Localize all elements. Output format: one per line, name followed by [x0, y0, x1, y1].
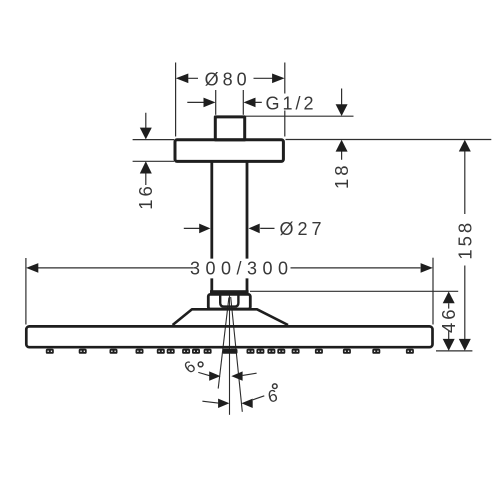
- nozzle highlight dots: [48, 351, 413, 352]
- arrow 46 down: [443, 339, 455, 351]
- arrow 6deg lower-left: [218, 399, 229, 408]
- arrow 16 down: [140, 128, 152, 140]
- arrow 46 up: [443, 292, 455, 304]
- nozzle 3: [110, 349, 118, 354]
- leader upper right tail: [243, 373, 257, 375]
- spray nozzles row: [46, 349, 414, 354]
- dimension 46 extension bottom: [436, 350, 472, 352]
- arrow G1/2 left: [204, 98, 216, 108]
- arrow Ø80 left: [176, 74, 189, 84]
- svg-text:G1/2: G1/2: [266, 93, 317, 113]
- pipe right edge (gap at 300/300 text): [246, 161, 249, 290]
- nozzle 5: [157, 349, 165, 354]
- arrow Ø27 left: [199, 224, 210, 234]
- svg-text:Ø80: Ø80: [205, 69, 251, 89]
- pipe left edge (gap at 300/300 text): [210, 161, 213, 290]
- nozzle 13: [256, 349, 264, 354]
- arrow 158 down: [459, 339, 471, 351]
- nozzle 2: [79, 349, 87, 354]
- svg-text:300/300: 300/300: [190, 259, 294, 279]
- nozzle 19: [372, 349, 380, 354]
- nozzle 11: [230, 349, 238, 354]
- nozzle 15: [277, 349, 285, 354]
- degree symbol lower: [273, 384, 278, 389]
- dimension 16 extension bottom: [133, 160, 174, 162]
- arrow 6deg lower-right: [241, 399, 252, 408]
- nozzle 7: [182, 349, 190, 354]
- spray angle line left 6deg: [218, 298, 229, 389]
- dimension G1/2 line tails: [187, 101, 261, 103]
- G1/2 thread nipple: [215, 117, 244, 140]
- nozzle 1: [46, 349, 54, 354]
- nozzle 4: [136, 349, 144, 354]
- nozzle 16: [292, 349, 300, 354]
- arrow 158 up: [459, 140, 471, 152]
- dimension 16 arrow tails: [145, 113, 147, 185]
- leader lower 6deg label: [253, 396, 264, 400]
- svg-text:158: 158: [454, 220, 475, 260]
- dimension 46 line segments: [448, 303, 450, 339]
- nozzle 10: [223, 349, 231, 354]
- nozzle 14: [267, 349, 275, 354]
- arrow 6deg upper-left: [209, 371, 220, 380]
- arrow Ø80 right: [272, 74, 285, 84]
- arrow G1/2 right: [244, 98, 256, 108]
- svg-text:18: 18: [331, 162, 352, 189]
- nozzle 12: [247, 349, 255, 354]
- dimension 300/300 line: [38, 267, 420, 269]
- arrow 18 down: [336, 104, 348, 116]
- connector collar bar: [210, 290, 249, 294]
- dimension Ø80 extension line left: [175, 63, 177, 137]
- arrow 300/300 left: [26, 263, 38, 273]
- degree symbol upper: [198, 362, 203, 367]
- svg-text:46: 46: [438, 306, 459, 333]
- dimension Ø27 arrow tails: [184, 227, 275, 229]
- ball joint inner nut: [220, 296, 238, 307]
- dimension 18/158 extension (ceiling plate top): [286, 139, 492, 141]
- arrow 6deg upper-right: [231, 371, 242, 380]
- dimension 18 arrow tails: [341, 89, 343, 160]
- shower head body: [26, 326, 432, 347]
- dimension G1/2 extension line right: [242, 90, 244, 115]
- product outline: [26, 117, 432, 347]
- arrow 18 up: [336, 140, 348, 152]
- dimension 46 extension top: [250, 290, 458, 292]
- dimension 158 line segments: [464, 151, 466, 339]
- leader upper 6deg label: [198, 372, 209, 375]
- nozzle 8: [192, 349, 200, 354]
- nozzle 9: [204, 349, 212, 354]
- dimension 18 extension top (nipple top): [246, 115, 354, 117]
- arrow 300/300 right: [421, 263, 433, 273]
- dimension Ø80 extension line right (gap at G1/2 text): [284, 63, 286, 137]
- nozzle 18: [343, 349, 351, 354]
- svg-text:16: 16: [135, 183, 156, 210]
- nozzle 20: [406, 349, 414, 354]
- dimension G1/2 extension line left: [215, 90, 217, 115]
- ball joint housing: [208, 294, 250, 309]
- dimension 300/300 extension right: [432, 258, 434, 325]
- svg-text:Ø27: Ø27: [280, 219, 326, 239]
- dimension 300/300 extension left: [25, 258, 27, 325]
- ceiling plate flange: [175, 140, 283, 162]
- nozzle 6: [167, 349, 175, 354]
- leader lower left tail: [202, 401, 218, 403]
- spray angle line right 6deg: [231, 297, 243, 412]
- dimension 16 extension top: [133, 139, 174, 141]
- arrow 16 up: [140, 161, 152, 173]
- dimension Ø80 line: [188, 77, 273, 79]
- arrowheads (filled): [26, 74, 471, 409]
- dome trapezoid: [173, 309, 288, 325]
- arrow Ø27 right: [249, 224, 260, 234]
- nozzle 17: [315, 349, 323, 354]
- spray angle center line: [229, 294, 231, 415]
